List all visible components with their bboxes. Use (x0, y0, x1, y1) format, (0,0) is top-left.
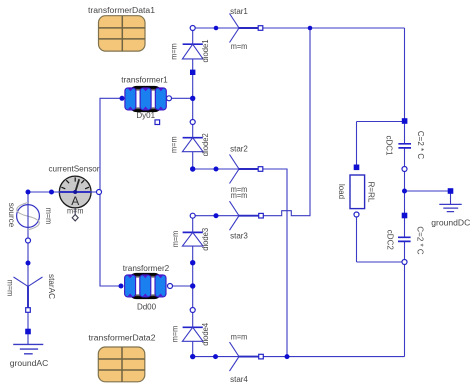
svg-text:star2: star2 (230, 145, 248, 154)
svg-text:load: load (337, 184, 346, 199)
wire: DC midpoint to groundDC (405, 190, 451, 192)
wire: sensor control output stem (74, 208, 76, 215)
pin: diode1 cathode (open) (190, 26, 195, 31)
pin: source bottom (open) (26, 238, 31, 243)
pin: diode1 anode (filled square) (190, 70, 195, 75)
diode D4 (182, 310, 203, 357)
junction dot: diode2 anode / star2 node (190, 166, 195, 171)
currentSensor hub (73, 190, 77, 194)
wire: transformer1 secondary to diode column (y=98.3) (169, 97, 193, 99)
svg-text:m=m: m=m (5, 280, 14, 297)
pin: star2 pin_n (open square) (258, 167, 263, 172)
transformer T1 coil 1 (125, 88, 136, 110)
svg-text:starAC: starAC (47, 274, 56, 299)
svg-text:groundAC: groundAC (10, 359, 49, 368)
svg-text:m=m: m=m (231, 332, 248, 341)
ground groundDC (439, 191, 461, 212)
wire: diode3 node to star3 (y=215.7) (193, 215, 239, 217)
pin: star2 plug (filled) (214, 167, 219, 172)
currentSensor ticks (61, 177, 89, 188)
pin: cDC1 bottom (open) (402, 167, 407, 172)
diode D2 (182, 122, 203, 169)
svg-text:star1: star1 (230, 7, 248, 16)
junction dot: DC midpoint node (402, 189, 407, 194)
transformer T2 coil 1 (125, 275, 136, 297)
junction dot: source corner (26, 190, 31, 195)
pin: star3 pin_n (open square) (259, 213, 264, 218)
pin: sensor control output diamond (72, 215, 78, 221)
pin: transformer2 secondary (open) (168, 284, 173, 289)
star3 (230, 201, 260, 230)
wire: right DC column lower segment (cDC2 bottom plate to bottom bus) (404, 242, 406, 357)
svg-text:Dd00: Dd00 (137, 302, 157, 311)
wire: load branch top (y=121.5) (357, 121, 405, 123)
svg-text:transformerData1: transformerData1 (88, 6, 156, 15)
pin: star1 plug (filled) (214, 26, 219, 31)
wire: diode3 anode to transformer2 junction to diode4 cathode (192, 263, 194, 310)
wire: diode1 anode down to transformer junction (192, 72, 194, 98)
star1 (230, 14, 260, 43)
svg-text:Dy01: Dy01 (136, 111, 155, 120)
svg-text:m=m: m=m (44, 208, 53, 225)
starAC (14, 277, 43, 308)
svg-text:transformer2: transformer2 (123, 264, 170, 273)
svg-text:source: source (7, 203, 16, 228)
pin: diode2 cathode (open) (190, 120, 195, 125)
wire: right DC column middle segment (cDC1 bottom plate to cDC2 top plate) (404, 149, 406, 238)
resistor load body (350, 175, 365, 209)
currentSensor needle (75, 179, 79, 192)
svg-text:transformerData2: transformerData2 (89, 334, 157, 343)
svg-text:star3: star3 (230, 232, 248, 241)
svg-text:diode1: diode1 (201, 39, 210, 63)
source sine wave (17, 203, 40, 230)
junction square: cDC2 top node (402, 213, 408, 219)
pin: load top (filled square) (354, 165, 360, 171)
pin: diode4 cathode (open) (190, 308, 195, 313)
record transformerData1 (99, 16, 146, 51)
svg-text:transformer1: transformer1 (121, 75, 168, 84)
pin: starAC pin_n (open square) (26, 308, 31, 313)
transformer T1 coil 3 (155, 88, 166, 110)
wire: sensor feedthrough (over gauge) (60, 191, 92, 193)
pin: groundDC terminal (filled square) (448, 188, 454, 194)
wire: star3 output with hop over x=287, then up x=310 to top bus (262, 28, 310, 216)
wire: star2 output to corner then down (x=287) (262, 169, 288, 357)
transformer T2 coil 3 (155, 275, 166, 297)
pin: transformer1 primary (filled) (120, 96, 125, 101)
record transformerData2 (98, 347, 145, 382)
capacitor cDC1 plates (398, 144, 411, 148)
pin: star1 pin_n (open square) (258, 26, 263, 31)
wire: bottom bus from diode4 anode to right column (y=356.6) (193, 356, 405, 358)
pin: star3 plug (filled) (214, 213, 219, 218)
wire: load branch left vertical upper (356, 122, 358, 168)
svg-text:m=m: m=m (170, 136, 179, 153)
wire: load branch left vertical lower (356, 215, 358, 263)
junction square: cDC1 top / load top node (402, 118, 408, 124)
wire: transformer junction down to diode2 cathode (192, 98, 194, 122)
svg-text:diode2: diode2 (201, 133, 210, 157)
wire: top bus from diode1 cathode to right column (y=28) (193, 27, 405, 29)
svg-text:cDC2: cDC2 (385, 230, 394, 251)
pin: sensor right (open) on x=100 (97, 190, 102, 195)
pin: transformer1 starpoint square (155, 120, 160, 125)
junction dot: transformer2 secondary node (190, 283, 195, 288)
svg-text:diode4: diode4 (201, 322, 210, 346)
wire: left primary column x=100 with corners to transformers (100, 98, 122, 286)
svg-text:groundDC: groundDC (431, 218, 470, 227)
wire: starAC plug to star center (27, 263, 29, 286)
transformer T1 coil 2 (140, 88, 151, 110)
junction dot: bottom bus / x=287 (285, 354, 290, 359)
wire: transformer2 secondary to diode column (y=286) (170, 285, 193, 287)
wire: diode2 node to star2 (y=169) (193, 168, 239, 170)
junction dot: diode1/transformer1/diode2 node (190, 96, 195, 101)
star2 (230, 155, 260, 184)
pin: sensor plug (filled) (49, 190, 54, 195)
wire: source pin to starAC plug (27, 241, 29, 264)
svg-text:m=m: m=m (231, 191, 248, 200)
svg-text:R=RL: R=RL (367, 182, 376, 203)
pin: cDC2 bottom (open) (402, 260, 407, 265)
wire: source feedthrough (27, 205, 29, 228)
junction dot: diode4 anode / bottom bus (190, 354, 195, 359)
svg-text:C=2 * C: C=2 * C (416, 131, 425, 159)
svg-text:C=2 * C: C=2 * C (415, 226, 424, 254)
transformer T2 coil 2 (140, 275, 151, 297)
junction dot: top bus / x=310 (308, 26, 313, 31)
wire: load branch bottom (y=262) (357, 261, 405, 263)
pin: transformer1 secondary (open) (167, 96, 172, 101)
svg-text:A: A (71, 194, 79, 208)
diode D3 (182, 216, 203, 263)
svg-text:m=m: m=m (231, 42, 248, 51)
star4 (230, 342, 260, 371)
pin: star4 plug (filled) (213, 354, 218, 359)
pin: load bottom (open) (354, 212, 359, 217)
svg-text:m=m: m=m (171, 230, 180, 247)
svg-text:currentSensor: currentSensor (49, 165, 100, 174)
pin: star4 pin_n (open square) (259, 354, 264, 359)
junction dot: diode3 anode node (190, 260, 195, 265)
transformer T1 core frame (131, 88, 161, 109)
wire: starAC pin to groundAC (27, 310, 29, 332)
pin: starAC plug (filled) (26, 261, 31, 266)
source circle (17, 205, 40, 228)
wire: AC feeder from source top corner to sensor (y=192) (28, 191, 97, 193)
pin: diode3 cathode (open) (190, 213, 195, 218)
ground groundAC (13, 332, 43, 354)
svg-text:cDC1: cDC1 (384, 135, 393, 156)
pin: transformer2 primary (filled) (119, 284, 124, 289)
svg-text:m=m: m=m (170, 43, 179, 60)
capacitor cDC2 plates (398, 237, 411, 241)
wire: source vertical through circle down to pin (27, 192, 29, 241)
wire: right DC column upper segment (x=404.5, y28 to cDC1 top plate) (404, 28, 406, 144)
diode D1 (182, 28, 203, 72)
pin: groundAC terminal (filled square) (25, 329, 31, 335)
transformer T2 core frame (131, 275, 161, 296)
svg-text:diode3: diode3 (201, 227, 210, 251)
svg-text:star4: star4 (230, 375, 248, 384)
svg-text:m=m: m=m (171, 325, 180, 342)
currentSensor gauge body (59, 176, 91, 208)
